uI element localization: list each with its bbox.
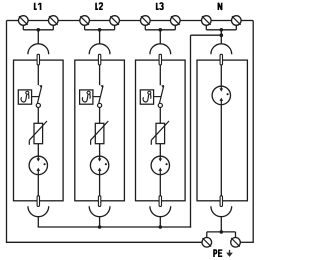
wire L1 down to plug — [37, 30, 39, 44]
plug contact L1 top arc — [28, 44, 49, 54]
varistor L1 — [29, 121, 47, 145]
label N — [218, 3, 221, 10]
terminal L1 right — [49, 16, 59, 26]
wire L2 down to plug — [99, 30, 101, 44]
plug pin L1 bottom — [37, 196, 39, 207]
switch contact circle L2 — [98, 103, 102, 107]
wire L2 cup to bus — [99, 217, 101, 227]
wire L3 down to plug — [159, 30, 161, 44]
wire outer bottom — [6, 241, 202, 243]
wire outer left side — [6, 21, 8, 243]
junction dot PE bracket — [220, 230, 224, 234]
spark gap L2 — [90, 156, 108, 174]
plug pin L1 top — [37, 54, 39, 65]
wire L1 varistor to spark gap — [37, 144, 39, 159]
wire N spark gap to bottom pin — [220, 105, 222, 196]
wire N terminal drops and bracket — [206, 25, 236, 30]
wire top bus segment — [150, 20, 170, 22]
wire top bus right end — [241, 20, 253, 22]
wire L1 cup to bus — [37, 217, 39, 227]
wire L2 disconnector link — [93, 96, 101, 98]
junction dot L2 bracket — [98, 28, 102, 32]
plug pin N top — [220, 54, 222, 65]
varistor L2 — [91, 121, 109, 145]
wire L3 spark gap to bottom pin — [159, 175, 161, 196]
wire L3 switch to varistor — [159, 108, 161, 124]
plug contact L3 top arc — [150, 44, 171, 54]
wire L3 cup to bus — [159, 217, 161, 227]
terminal L3 left — [141, 16, 151, 26]
wire top bus left end — [7, 20, 19, 22]
wire N cup to PE bracket — [220, 217, 222, 232]
label PE — [214, 250, 217, 257]
wire L2 spark gap to bottom pin — [99, 175, 101, 196]
wire L3 varistor to spark gap — [159, 144, 161, 159]
plug contact N bottom arc — [211, 206, 232, 216]
plug pin L2 bottom — [98, 196, 100, 207]
wire L1 terminal drops and bracket — [23, 25, 53, 30]
terminal N left — [202, 16, 212, 26]
wire N down to plug — [220, 30, 222, 44]
plug contact L2 bottom arc — [89, 206, 110, 216]
spark gap L1 — [29, 156, 47, 174]
wire L3 disconnector link — [154, 96, 162, 98]
wire L1 disconnector link — [32, 96, 40, 98]
wire L1 switch to varistor — [37, 108, 39, 124]
wire N pin to spark gap — [220, 65, 222, 89]
wire outer right side — [252, 21, 254, 243]
thermal disconnector L1 — [18, 90, 31, 104]
plug pin L3 bottom — [159, 196, 161, 207]
spark gap L3 — [151, 156, 169, 174]
plug pin L3 top — [159, 54, 161, 65]
wire bus riser — [190, 35, 192, 227]
wire top bus segment — [28, 20, 48, 22]
switch blade L3 — [159, 85, 164, 103]
thermal disconnector L2 — [80, 90, 93, 104]
label L2 — [96, 3, 98, 9]
junction dot L1 bracket — [37, 28, 41, 32]
terminal PE right — [231, 238, 241, 248]
wire L1 spark gap to bottom pin — [37, 175, 39, 196]
wire top bus segment — [58, 20, 80, 22]
wire PE bracket — [207, 232, 236, 238]
wire top bus segment — [180, 20, 201, 22]
module box L1 — [14, 60, 64, 201]
junction dot N branch — [220, 33, 224, 37]
module box N — [197, 60, 247, 201]
terminal L1 left — [19, 16, 29, 26]
spark gap N — [212, 86, 230, 104]
PE earth arrow — [226, 250, 233, 257]
label L3 — [157, 3, 159, 9]
wire L2 varistor to spark gap — [99, 144, 101, 159]
wire L1 pin to switch — [37, 65, 39, 85]
plug contact L2 top arc — [89, 44, 110, 54]
thermal disconnector L3 — [140, 90, 153, 104]
terminal L3 right — [171, 16, 181, 26]
switch blade L2 — [99, 85, 104, 103]
wire N branch to bus riser — [191, 34, 222, 36]
terminal L2 right — [110, 16, 120, 26]
wire L2 terminal drops and bracket — [85, 25, 115, 30]
junction dot bus L2 — [98, 225, 102, 229]
junction dot N bracket — [220, 28, 224, 32]
plug contact L1 bottom arc — [28, 206, 49, 216]
junction dot L3 bracket — [159, 28, 163, 32]
switch blade L1 — [37, 85, 42, 103]
wire top bus segment — [211, 20, 231, 22]
module box L2 — [75, 60, 125, 201]
terminal PE left — [202, 238, 212, 248]
wire top bus segment — [89, 20, 109, 22]
switch contact circle L1 — [36, 103, 40, 107]
wire L2 pin to switch — [99, 65, 101, 85]
wire L2 switch to varistor — [99, 108, 101, 124]
junction dot bus L3 — [159, 225, 163, 229]
wire bottom bus — [38, 226, 192, 228]
wire L3 terminal drops and bracket — [145, 25, 175, 30]
plug pin L2 top — [98, 54, 100, 65]
terminal L2 left — [80, 16, 90, 26]
plug contact N top arc — [211, 44, 232, 54]
plug pin N bottom — [220, 196, 222, 207]
wire L3 pin to switch — [159, 65, 161, 85]
wire top bus segment — [119, 20, 140, 22]
switch contact circle L3 — [158, 103, 162, 107]
module box L3 — [136, 60, 186, 201]
terminal N right — [232, 16, 242, 26]
varistor L3 — [151, 121, 169, 145]
label L1 — [35, 3, 37, 9]
wire outer bottom right — [240, 241, 254, 243]
plug contact L3 bottom arc — [150, 206, 171, 216]
